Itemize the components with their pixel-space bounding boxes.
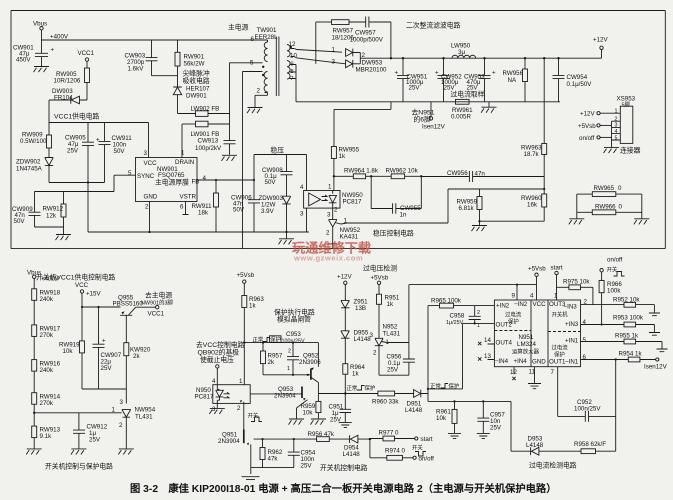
resistor R951: [377, 294, 400, 338]
wire main ground rail: [88, 231, 309, 233]
capacitor C952: [558, 399, 616, 422]
svg-text:L4148: L4148: [526, 442, 544, 449]
svg-text:10k: 10k: [436, 415, 447, 422]
capacitor CW955: [371, 176, 421, 218]
svg-text:+5Vsb: +5Vsb: [237, 272, 255, 279]
svg-text:保护: 保护: [449, 382, 460, 390]
resistor RW960: [480, 189, 547, 221]
svg-text:1.6kV: 1.6kV: [128, 66, 145, 73]
resistor R957: [261, 343, 283, 375]
node Isen12V tap: [412, 102, 446, 131]
svg-text:ZDW902: ZDW902: [16, 159, 41, 166]
svg-text:10R/1206: 10R/1206: [54, 78, 81, 85]
resistor RW918: [32, 289, 61, 325]
svg-text:+: +: [492, 70, 496, 77]
node +5Vsb terminal (protection): [237, 272, 255, 296]
wire secondary 0V rail: [296, 101, 560, 103]
label 保护执行电路 模拟晶闸管: [274, 308, 315, 324]
svg-text:RW957: RW957: [333, 28, 354, 35]
svg-text:DRAIN: DRAIN: [175, 159, 194, 166]
shunt reg NW952 KA431: [326, 208, 361, 249]
svg-text:4: 4: [203, 175, 207, 182]
diode D951 L4148: [405, 390, 428, 414]
svg-text:VCC: VCC: [144, 160, 158, 167]
cap to gnd (R955): [657, 349, 668, 352]
svg-text:+12V: +12V: [580, 111, 595, 118]
ground (TW901 pin2): [247, 108, 263, 114]
svg-text:1: 1: [328, 184, 332, 191]
svg-text:PC817: PC817: [195, 394, 214, 401]
svg-text:+: +: [96, 137, 100, 144]
resistor RW964 1.8k: [334, 168, 379, 179]
svg-text:+IN1: +IN1: [565, 338, 579, 345]
resistor RW901: [175, 40, 205, 76]
capacitor C958: [446, 306, 481, 329]
svg-text:18.7k: 18.7k: [524, 151, 540, 158]
wire Q952 base row: [263, 374, 310, 376]
svg-text:3: 3: [300, 211, 304, 218]
capacitor C951: [329, 394, 352, 424]
resistor R977 0: [370, 430, 415, 441]
svg-text:RW912: RW912: [43, 206, 64, 213]
resistor RW913: [32, 426, 61, 449]
svg-text:尖峰脉冲: 尖峰脉冲: [183, 69, 210, 78]
pin14 stub nc: [478, 342, 494, 345]
svg-text:−IN1: −IN1: [565, 359, 579, 366]
svg-text:CW957: CW957: [355, 30, 376, 37]
svg-text:+IN2: +IN2: [496, 303, 510, 310]
wire DRAIN pin1 riser: [181, 124, 183, 158]
wire VCC pin3 riser: [148, 123, 150, 158]
annotation 正常/保护 waveform (right): [430, 382, 459, 390]
svg-text:7: 7: [551, 369, 555, 376]
svg-text:5: 5: [583, 337, 587, 344]
svg-text:18k: 18k: [198, 210, 209, 217]
node VCC1 terminal: [78, 50, 95, 68]
svg-text:R958 62k/F: R958 62k/F: [574, 441, 606, 448]
svg-text:0: 0: [619, 204, 623, 211]
wire pin4 row: [581, 323, 625, 325]
svg-text:+5Vsb: +5Vsb: [371, 275, 389, 282]
wire filter ground rail: [49, 182, 105, 184]
resistor RW965 0: [577, 185, 642, 197]
wire secondary pin12 to rectifier: [291, 47, 343, 54]
svg-text:−IN3: −IN3: [564, 304, 578, 311]
wire OUT1 riser: [557, 367, 559, 417]
svg-text:HER107: HER107: [186, 86, 210, 93]
node control terminal (to QB902): [196, 340, 245, 368]
IC NW901 FSQ0765: [128, 150, 207, 211]
svg-text:1: 1: [477, 323, 480, 329]
svg-text:13B: 13B: [355, 305, 366, 312]
svg-text:2: 2: [615, 117, 618, 123]
wire FB net: [197, 179, 255, 181]
ground (RW965 left): [569, 219, 585, 225]
svg-text:25V: 25V: [409, 85, 421, 92]
wire emitter rail: [82, 389, 126, 404]
ground (R961): [448, 433, 461, 438]
ground (RW913): [26, 449, 42, 455]
svg-text:start: start: [551, 265, 563, 272]
svg-text:RW956: RW956: [503, 70, 524, 77]
resistor RW963: [521, 57, 547, 189]
svg-text:10k: 10k: [303, 410, 314, 417]
svg-text:开关: 开关: [248, 412, 259, 420]
svg-text:100n/25V: 100n/25V: [574, 406, 601, 413]
node +12V (connector): [580, 111, 600, 118]
node +12V terminal (detect): [337, 274, 352, 301]
svg-text:3: 3: [144, 150, 148, 157]
resistor RW909: [20, 123, 52, 158]
capacitor CW912: [73, 413, 108, 449]
svg-text:TL431: TL431: [383, 331, 401, 338]
capacitor C954: [288, 439, 316, 469]
ground (N950 pin3): [209, 403, 225, 414]
resistor R960 33k: [372, 391, 414, 405]
svg-text:4: 4: [583, 319, 587, 326]
svg-text:5: 5: [128, 170, 132, 177]
node +12V terminal: [593, 37, 608, 59]
resistor R963: [242, 296, 265, 344]
label 开关机控制电路: [320, 463, 368, 472]
resistor RW961 0.005R (current sample): [451, 90, 485, 121]
svg-text:GND: GND: [532, 359, 546, 366]
label 连接器: [620, 146, 641, 155]
svg-text:TL431: TL431: [135, 414, 153, 421]
resistor RW956 NA: [503, 57, 528, 102]
resistor R961: [436, 401, 457, 433]
svg-text:Isen12V: Isen12V: [422, 124, 446, 131]
svg-text:9: 9: [512, 293, 516, 300]
svg-text:25V: 25V: [387, 367, 399, 374]
svg-text:+12V: +12V: [593, 37, 608, 44]
svg-text:1μ/25V: 1μ/25V: [446, 320, 464, 326]
svg-text:保护执行电路: 保护执行电路: [274, 308, 315, 317]
wire RW955 feed: [334, 102, 391, 147]
capacitor CW953: [464, 57, 496, 102]
svg-text:25V: 25V: [444, 85, 456, 92]
svg-text:6.81k: 6.81k: [459, 205, 475, 212]
svg-text:2: 2: [334, 207, 338, 214]
resistor RW912: [43, 192, 67, 235]
svg-text:LM324: LM324: [517, 341, 536, 348]
diode HER107 DW901: [173, 76, 210, 114]
svg-text:1: 1: [239, 378, 243, 385]
capacitor CW911: [99, 123, 133, 183]
ground (NW954): [118, 449, 134, 455]
svg-text:56k/2W: 56k/2W: [184, 61, 205, 68]
node on/off (connector): [579, 135, 612, 142]
svg-text:0.005R: 0.005R: [451, 114, 471, 121]
wire RW965/966 left leg: [576, 194, 578, 219]
section title 主电源: [228, 23, 249, 32]
svg-text:稳压控制电路: 稳压控制电路: [373, 229, 414, 238]
svg-text:25V: 25V: [490, 425, 502, 432]
node +5Vsb terminal (LM324): [528, 266, 546, 301]
wire pin5 row: [581, 341, 625, 343]
ground (pin11): [528, 367, 541, 389]
svg-text:2: 2: [477, 310, 480, 316]
node on/off terminal: [413, 456, 434, 463]
svg-text:TW901: TW901: [257, 27, 278, 34]
svg-text:R960 33k: R960 33k: [372, 399, 399, 406]
svg-text:二次整流滤波电路: 二次整流滤波电路: [406, 21, 461, 30]
zener ZDW903: [259, 195, 291, 233]
svg-text:2: 2: [373, 350, 377, 357]
capacitor C956: [379, 285, 415, 376]
wire protection top rail: [244, 342, 318, 344]
resistor RW911: [192, 180, 219, 232]
wire VCC1 feed: [48, 100, 50, 123]
svg-text:过电流: 过电流: [552, 344, 569, 352]
svg-text:保护: 保护: [554, 351, 565, 359]
frame border: [11, 11, 665, 249]
diode D953 L4148: [511, 436, 581, 456]
svg-text:+: +: [102, 338, 106, 345]
capacitor C953: [282, 331, 305, 375]
svg-text:25V: 25V: [101, 365, 113, 372]
wire opto pin3 to ground rail: [306, 208, 308, 232]
wire Q953 base to opto: [250, 393, 302, 395]
resistor R975 10k: [557, 279, 593, 305]
inductor LW901 FB: [182, 121, 230, 138]
diode D955 L4148: [341, 330, 371, 364]
svg-text:−IN2: −IN2: [514, 301, 528, 308]
svg-text:240k: 240k: [40, 296, 54, 303]
svg-text:2: 2: [145, 204, 149, 211]
svg-text:连接器: 连接器: [620, 146, 641, 155]
wire protect row: [318, 393, 378, 395]
svg-text:50V: 50V: [233, 207, 245, 214]
svg-text:CW913: CW913: [198, 138, 219, 145]
svg-text:+15V: +15V: [86, 291, 101, 298]
svg-text:4: 4: [212, 378, 216, 385]
resistor R953 100k: [613, 315, 654, 333]
svg-text:去VCC控制电路: 去VCC控制电路: [196, 340, 245, 349]
capacitor CW956: [421, 170, 544, 182]
svg-text:start: start: [421, 436, 433, 443]
svg-text:2k: 2k: [268, 359, 275, 366]
svg-text:12: 12: [289, 41, 296, 48]
svg-text:+IN4: +IN4: [514, 358, 528, 365]
svg-text:+5Vsb: +5Vsb: [578, 123, 596, 130]
wire to main ground rail: [87, 183, 89, 233]
annotation 开关 waveform (N950): [248, 412, 263, 422]
transformer TW901 EER28L: [250, 27, 297, 96]
node VCC1 out terminal: [148, 306, 165, 318]
svg-text:1n: 1n: [400, 212, 407, 219]
wire to overcurrent sense: [428, 389, 511, 451]
inductor LW902 FB: [178, 106, 230, 117]
ground (R959): [310, 419, 326, 425]
svg-text:去N951: 去N951: [412, 108, 435, 117]
wire VCC1 rail: [49, 122, 149, 124]
ground (XS953): [604, 147, 620, 153]
wire pin9 stub: [516, 285, 518, 300]
shunt reg N952 TL431: [370, 324, 409, 376]
wire pin6 row: [581, 358, 629, 360]
resistor R964: [343, 364, 366, 395]
label 去主电源 NW901的3脚: [141, 291, 173, 307]
wire KA431 ref to divider: [347, 189, 448, 223]
cap to gnd (R952): [649, 313, 660, 316]
svg-text:2: 2: [326, 230, 330, 237]
wire VSTR pin6 stub: [183, 202, 189, 215]
svg-text:0.5W/100: 0.5W/100: [20, 138, 47, 145]
svg-text:R974 0: R974 0: [385, 448, 406, 455]
node +5Vsb terminal (N952): [371, 275, 389, 295]
label 开关机VCC1供电控制电路: [36, 273, 116, 282]
svg-text:R955 1k: R955 1k: [615, 333, 639, 340]
wire base feed: [81, 306, 121, 308]
wire GND pin2: [148, 202, 150, 234]
svg-text:16k: 16k: [527, 202, 538, 209]
svg-text:1k: 1k: [339, 153, 346, 160]
svg-text:10k: 10k: [63, 348, 74, 355]
wire pin2 to ground: [255, 93, 268, 108]
svg-text:KA431: KA431: [340, 234, 359, 241]
shunt reg NW954 TL431: [112, 399, 156, 449]
svg-text:开关机控制电路: 开关机控制电路: [320, 463, 368, 472]
svg-text:100p/2kV: 100p/2kV: [195, 145, 222, 152]
svg-text:吸收电路: 吸收电路: [183, 76, 210, 85]
svg-text:240k: 240k: [40, 367, 54, 374]
op-amp N951 LM324: [484, 293, 588, 377]
resistor R974 0: [370, 439, 413, 460]
transistor Q955 PBSS5160: [113, 295, 156, 343]
svg-text:1k: 1k: [352, 371, 359, 378]
svg-text:270k: 270k: [40, 332, 54, 339]
wire R963 node to opto pin1: [243, 343, 245, 385]
svg-text:MBR20100: MBR20100: [356, 67, 388, 74]
resistor R966 100k: [599, 272, 622, 325]
node +5Vsb (connector): [578, 123, 612, 130]
svg-text:14: 14: [484, 337, 491, 344]
wire SYNC pin5: [114, 175, 136, 191]
label 稳压: [271, 146, 285, 155]
svg-text:www.gzweix.com: www.gzweix.com: [293, 254, 363, 263]
wire feedback row2: [448, 188, 545, 190]
optocoupler NW950 PC817: [300, 184, 363, 218]
svg-text:图 3-2 康佳 KIP200I18-01 电源 + 高压二: 图 3-2 康佳 KIP200I18-01 电源 + 高压二合一板开关电源电路 …: [130, 482, 557, 495]
svg-text:6: 6: [251, 36, 255, 43]
wire +12V bus: [360, 57, 601, 59]
label 开关机控制与保护电路: [45, 462, 113, 471]
svg-text:VCC1供电电路: VCC1供电电路: [54, 112, 100, 121]
svg-text:VSTR: VSTR: [180, 194, 197, 201]
wire TL431 ref: [34, 412, 122, 414]
svg-text:2N3904: 2N3904: [218, 438, 240, 445]
svg-text:25V: 25V: [467, 85, 479, 92]
wire pins 9-8-7 common: [290, 65, 297, 102]
label 过电压检测: [363, 264, 397, 273]
svg-text:QB902的基极: QB902的基极: [198, 348, 240, 357]
svg-text:C953: C953: [286, 331, 301, 338]
svg-text:50V: 50V: [114, 148, 126, 155]
svg-text:主电源厚膜: 主电源厚膜: [155, 178, 189, 187]
ground (C957): [477, 433, 490, 438]
diode DW953 MBR20100 (pair): [346, 49, 387, 74]
svg-text:2N3906: 2N3906: [299, 359, 321, 366]
svg-text:6: 6: [180, 204, 184, 211]
wire snubber left leg: [315, 22, 317, 64]
capacitor CW908: [262, 155, 293, 197]
svg-text:模拟晶闸管: 模拟晶闸管: [277, 315, 311, 324]
capacitor CW913: [195, 63, 236, 155]
svg-text:VCC1: VCC1: [78, 50, 95, 57]
svg-text:+: +: [51, 47, 55, 54]
resistor RW905: [54, 68, 90, 100]
svg-text:PC817: PC817: [343, 199, 362, 206]
capacitor CW907: [93, 307, 122, 389]
svg-text:1: 1: [287, 366, 290, 372]
watermark url: [293, 254, 363, 263]
svg-text:2: 2: [257, 88, 261, 95]
capacitor CW954: [553, 57, 593, 102]
capacitor CW903: [125, 40, 158, 76]
svg-text:0: 0: [618, 185, 622, 192]
svg-text:270k: 270k: [40, 400, 54, 407]
node Vbus (+400V terminal): [33, 21, 69, 41]
ground (C951): [339, 422, 352, 427]
capacitor CW909: [12, 192, 64, 228]
resistor R962: [260, 439, 283, 468]
label 稳压控制电路: [373, 229, 414, 238]
svg-text:50V: 50V: [14, 218, 26, 225]
svg-text:开关机控制与保护电路: 开关机控制与保护电路: [45, 462, 113, 471]
svg-text:2: 2: [288, 349, 291, 355]
svg-text:L4148: L4148: [405, 407, 423, 414]
svg-text:4: 4: [530, 293, 534, 300]
svg-text:R954 1k: R954 1k: [619, 351, 643, 358]
node start terminal (pin1): [551, 265, 563, 301]
svg-text:1: 1: [332, 47, 336, 54]
svg-text:3: 3: [370, 332, 374, 339]
svg-text:9.1k: 9.1k: [40, 433, 53, 440]
svg-text:7: 7: [291, 76, 294, 82]
svg-text:1k: 1k: [249, 303, 256, 310]
label 过电流检测电路: [529, 461, 577, 470]
svg-text:XS953: XS953: [617, 96, 636, 103]
svg-text:正常: 正常: [430, 382, 441, 390]
optocoupler N950 PC817: [195, 378, 251, 413]
wire +5Vsb rail to LM324: [409, 284, 537, 286]
svg-text:CW954: CW954: [567, 74, 588, 81]
svg-text:LW902 FB: LW902 FB: [191, 106, 220, 113]
capacitor C957: [477, 401, 505, 433]
watermark red: [292, 240, 371, 256]
svg-text:5: 5: [615, 135, 618, 141]
transistor Q952 2N3906: [299, 343, 321, 394]
svg-text:Isen12V: Isen12V: [644, 364, 668, 371]
svg-text:1N4745A: 1N4745A: [16, 166, 43, 173]
svg-text:的6脚: 的6脚: [414, 115, 432, 124]
annotation 正常/保护 waveform: [253, 335, 282, 343]
annotation 开关 waveform (on/off): [607, 266, 625, 277]
svg-text:VCC: VCC: [75, 282, 89, 289]
cap to gnd (R953): [649, 333, 660, 336]
svg-text:Vbus: Vbus: [33, 21, 47, 28]
svg-text:过电流取样: 过电流取样: [451, 90, 485, 99]
svg-text:2: 2: [119, 422, 123, 429]
resistor RW955: [331, 147, 359, 178]
svg-text:6: 6: [583, 354, 587, 361]
svg-text:3.9V: 3.9V: [261, 208, 275, 215]
svg-text:1k: 1k: [387, 301, 394, 308]
wire CW909 RW912 branch: [35, 191, 115, 193]
svg-text:47k: 47k: [268, 456, 279, 463]
wire pin2 row: [581, 304, 625, 306]
